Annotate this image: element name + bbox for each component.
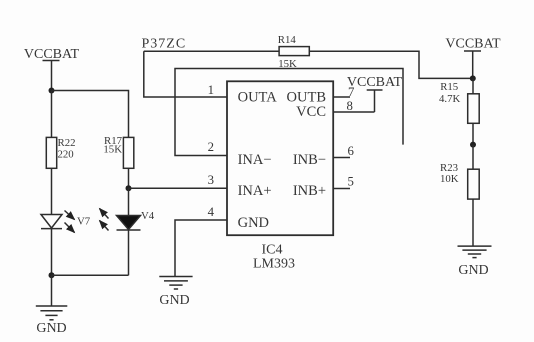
pin number 1 [208, 83, 214, 97]
svg-text:INA−: INA− [238, 152, 272, 168]
power VCCBAT (left) [24, 47, 80, 62]
pin number 2 [208, 140, 214, 154]
svg-text:8: 8 [347, 99, 353, 113]
pin 6 stub [333, 157, 350, 159]
node E junction [470, 142, 476, 148]
svg-text:V4: V4 [141, 210, 155, 222]
pin number 5 [348, 174, 354, 188]
pin number 7 [348, 85, 355, 99]
svg-text:IC4: IC4 [262, 243, 283, 258]
wire VCCBAT-left to node A [51, 61, 53, 91]
svg-text:R23: R23 [440, 162, 458, 174]
svg-text:GND: GND [159, 293, 189, 308]
ground (right) [458, 246, 492, 258]
wire node A down to R22 [51, 91, 53, 138]
pin 5 stub [333, 188, 350, 190]
resistor R22 [46, 137, 56, 168]
wire node E (divider tap) to pin 2 [175, 69, 403, 156]
svg-text:GND: GND [36, 321, 66, 336]
wire node C to pin 3 [129, 187, 228, 189]
wire V4 to node B rail [128, 230, 130, 275]
svg-text:LM393: LM393 [253, 257, 295, 272]
svg-text:OUTA: OUTA [238, 90, 278, 106]
wire node B to V4 branch [52, 274, 129, 276]
resistor R17 [123, 137, 133, 168]
wire R23 to ground [472, 199, 474, 246]
wire node D to R15 [472, 78, 474, 93]
node P37ZC label [142, 37, 187, 52]
resistor R14 [279, 47, 309, 56]
svg-text:R15: R15 [440, 81, 458, 93]
pin number 6 [348, 144, 355, 158]
wire node A to R17 branch [52, 91, 129, 138]
wire VCCBAT-middle to pin 8 [374, 90, 376, 112]
LED V7 [41, 211, 75, 233]
svg-text:3: 3 [208, 173, 214, 187]
wire VCCBAT-right to node D [472, 51, 474, 79]
svg-text:4: 4 [208, 205, 215, 219]
wire node E to R23 [472, 145, 474, 170]
power VCCBAT (middle) [347, 75, 403, 90]
wire P37ZC to R14 [144, 50, 279, 52]
svg-text:GND: GND [458, 263, 488, 278]
svg-text:V7: V7 [77, 216, 91, 228]
node C junction [126, 185, 132, 191]
svg-text:R14: R14 [278, 34, 297, 46]
svg-text:10K: 10K [440, 173, 459, 185]
wire R17 to node C [128, 168, 130, 188]
pin 8 stub / wire to VCCBAT [333, 111, 374, 113]
wire pin 4 to ground [175, 220, 227, 277]
pin 7 stub [333, 96, 350, 98]
svg-text:15K: 15K [103, 144, 122, 156]
resistor R23 [468, 169, 480, 199]
ground (pin 4) [159, 277, 192, 290]
pin number 4 [208, 205, 215, 219]
svg-text:INB+: INB+ [293, 183, 326, 199]
svg-text:5: 5 [348, 174, 354, 188]
svg-text:P37ZC: P37ZC [142, 37, 187, 52]
wire R15 to node E [472, 123, 474, 144]
svg-text:220: 220 [58, 148, 74, 160]
node D junction [470, 75, 476, 81]
svg-text:VCCBAT: VCCBAT [445, 37, 501, 52]
wire R14 to node D [309, 51, 473, 78]
pin number 8 [347, 99, 353, 113]
svg-text:VCC: VCC [296, 104, 326, 120]
ground (bottom left) [36, 306, 68, 320]
svg-text:INA+: INA+ [238, 183, 272, 199]
op-amp IC4 LM393 [227, 81, 333, 235]
node A junction [49, 88, 55, 94]
svg-text:2: 2 [208, 140, 214, 154]
wire node C down to V4 [128, 188, 130, 215]
svg-text:VCCBAT: VCCBAT [347, 75, 403, 90]
svg-text:1: 1 [208, 83, 214, 97]
wire V7 to node B [51, 229, 53, 276]
wire R22 to LED V7 [51, 168, 53, 214]
node B junction [49, 272, 55, 278]
pin number 3 [208, 173, 214, 187]
svg-text:GND: GND [238, 215, 269, 231]
wire P37ZC down to pin 1 [144, 51, 227, 97]
svg-text:4.7K: 4.7K [439, 93, 460, 105]
resistor R15 [468, 94, 480, 124]
photodiode V4 [100, 209, 141, 231]
svg-text:6: 6 [348, 144, 355, 158]
power VCCBAT (right) [445, 37, 501, 52]
svg-text:INB−: INB− [293, 152, 326, 168]
wire node B to ground [51, 275, 53, 306]
